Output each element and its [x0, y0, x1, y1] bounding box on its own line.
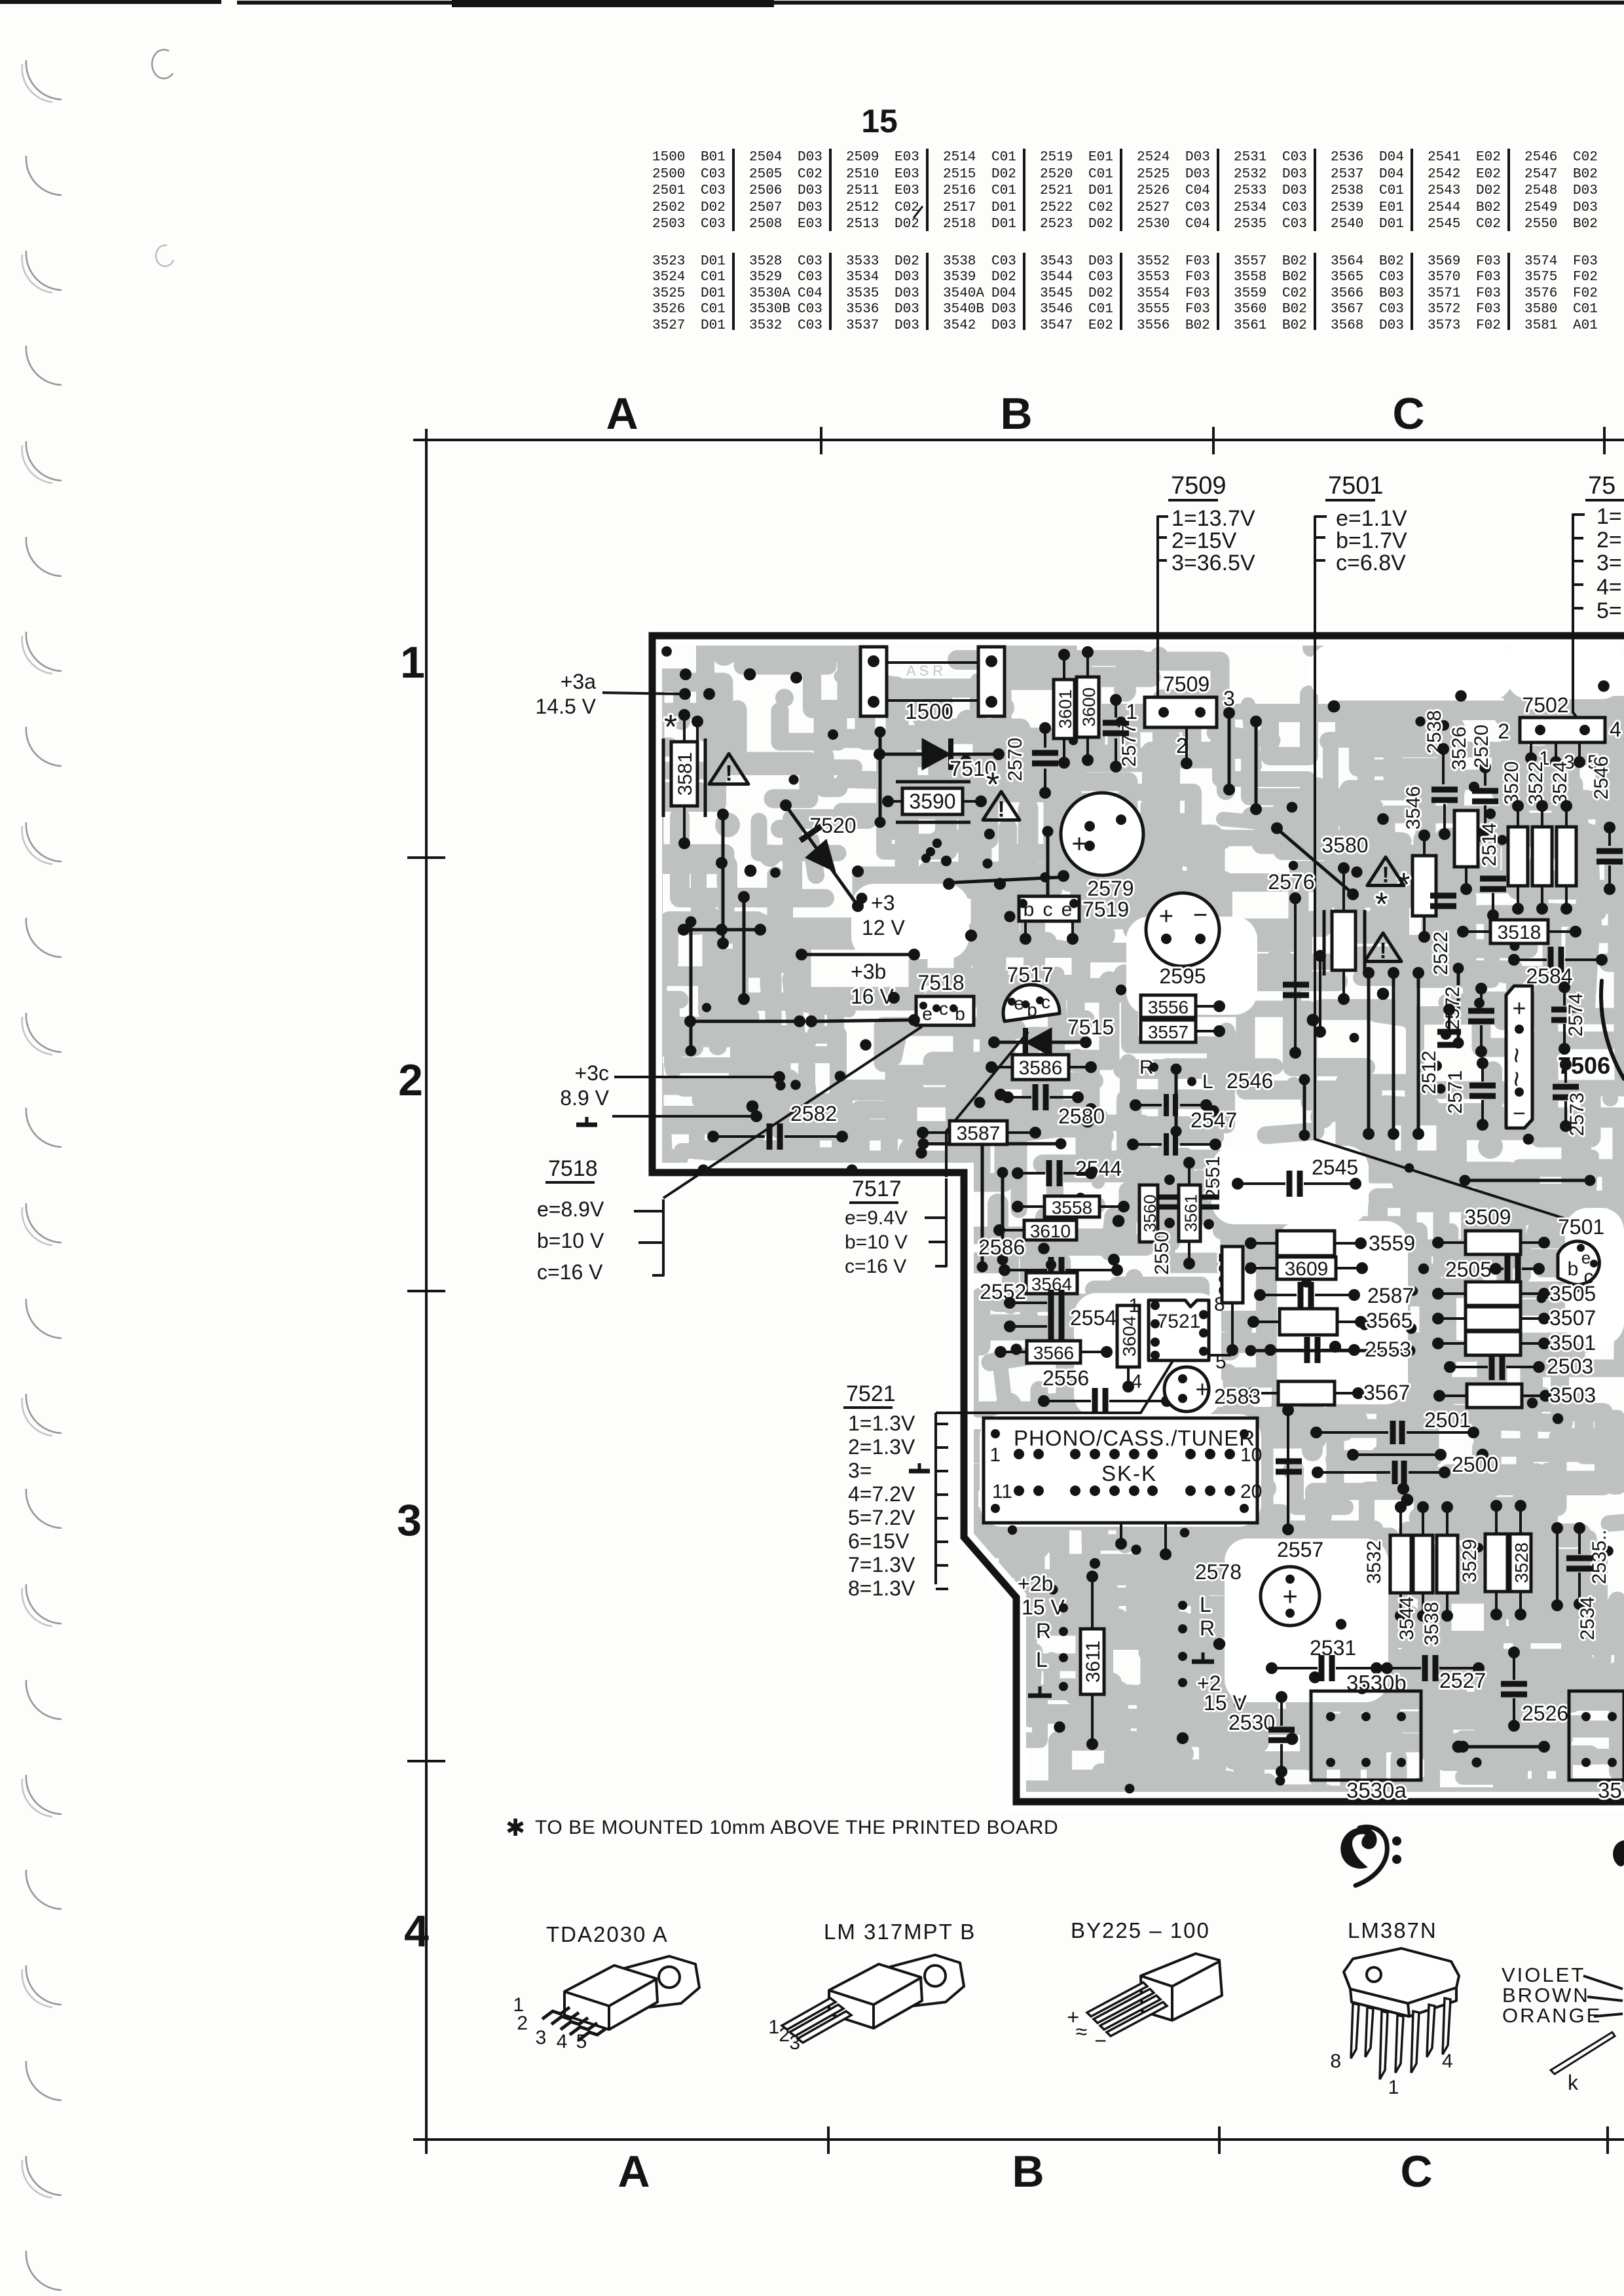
svg-text:3580: 3580 [1524, 302, 1557, 317]
svg-text:!: ! [1382, 863, 1389, 888]
svg-text:e=9.4V: e=9.4V [845, 1207, 908, 1229]
svg-text:2532: 2532 [1234, 167, 1266, 182]
svg-text:C03: C03 [701, 217, 726, 232]
svg-text:4=7.2V: 4=7.2V [848, 1482, 915, 1506]
svg-text:3530a: 3530a [1346, 1778, 1407, 1802]
svg-text:C04: C04 [1185, 183, 1210, 198]
partial bass clef right edge [1614, 1841, 1624, 1866]
leader line 7501 to transistor [1315, 634, 1566, 1219]
leader line 7503 to connector 7502 [1573, 634, 1585, 728]
svg-text:3544: 3544 [1040, 270, 1073, 285]
svg-text:E02: E02 [1476, 167, 1501, 182]
svg-text:3556: 3556 [1148, 997, 1189, 1017]
svg-text:2500: 2500 [652, 167, 685, 182]
svg-text:3586: 3586 [1019, 1057, 1063, 1079]
svg-text:3518: 3518 [1498, 922, 1541, 943]
svg-text:B: B [1012, 2147, 1044, 2196]
svg-text:2577: 2577 [1118, 723, 1140, 767]
svg-text:C03: C03 [701, 167, 726, 182]
svg-text:2=15V: 2=15V [1172, 528, 1237, 553]
svg-text:+: + [1195, 1376, 1209, 1402]
svg-text:2534: 2534 [1234, 200, 1266, 215]
svg-text:2516: 2516 [943, 183, 976, 198]
resistor 3610 [1024, 1220, 1077, 1240]
svg-text:C: C [1392, 389, 1424, 439]
svg-text:2517: 2517 [943, 200, 976, 215]
svg-text:7501: 7501 [1328, 472, 1384, 500]
capacitor 2554 [1051, 1313, 1061, 1339]
bass clef mark [1341, 1828, 1376, 1868]
svg-text:B02: B02 [1476, 200, 1501, 215]
svg-text:7502: 7502 [1522, 693, 1568, 717]
svg-text:7509: 7509 [1163, 672, 1209, 696]
resistor 3586 [1012, 1055, 1069, 1080]
svg-text:C02: C02 [1282, 286, 1307, 301]
svg-text:C02: C02 [798, 167, 822, 182]
svg-text:F03: F03 [1573, 254, 1598, 269]
svg-text:e=1.1V: e=1.1V [1336, 506, 1407, 531]
svg-text:C03: C03 [701, 183, 726, 198]
svg-text:3611: 3611 [1082, 1641, 1104, 1683]
svg-text:D02: D02 [1088, 286, 1113, 301]
svg-text:2583: 2583 [1214, 1385, 1261, 1408]
svg-text:B02: B02 [1573, 217, 1598, 232]
svg-text:3505: 3505 [1549, 1282, 1596, 1305]
svg-text:3600: 3600 [1079, 687, 1099, 727]
svg-text:3601: 3601 [1056, 689, 1075, 729]
svg-text:2546: 2546 [1524, 150, 1557, 165]
resistor 3566 [1027, 1341, 1080, 1363]
svg-text:3522: 3522 [1525, 761, 1547, 805]
svg-text:D02: D02 [1088, 217, 1113, 232]
resistor 3567 [1278, 1381, 1335, 1405]
svg-text:2571: 2571 [1445, 1070, 1466, 1114]
svg-text:D03: D03 [1379, 318, 1404, 333]
svg-text:1: 1 [768, 2016, 779, 2038]
svg-text:C02: C02 [1476, 217, 1501, 232]
IC 354x right [1569, 1691, 1624, 1780]
svg-text:D02: D02 [895, 217, 919, 232]
svg-text:b=10 V: b=10 V [537, 1229, 604, 1252]
svg-text:2527: 2527 [1137, 200, 1170, 215]
svg-text:3604: 3604 [1119, 1316, 1139, 1357]
svg-text:~: ~ [1501, 1048, 1532, 1064]
svg-text:8=1.3V: 8=1.3V [848, 1576, 915, 1600]
svg-text:C03: C03 [798, 302, 822, 317]
capacitor 2553 [1307, 1337, 1318, 1363]
svg-text:ORANGE: ORANGE [1502, 2004, 1602, 2027]
svg-text:2538: 2538 [1331, 183, 1363, 198]
svg-text:4: 4 [1442, 2050, 1453, 2072]
svg-text:4: 4 [1610, 718, 1621, 741]
svg-text:2536: 2536 [1331, 150, 1363, 165]
svg-text:2: 2 [1498, 720, 1509, 743]
svg-text:7521: 7521 [846, 1381, 896, 1406]
svg-text:3560: 3560 [1140, 1195, 1160, 1233]
capacitor 2583 [1164, 1367, 1209, 1412]
svg-text:C01: C01 [701, 302, 726, 317]
svg-text:D01: D01 [991, 217, 1016, 232]
resistor 3609 [1277, 1257, 1336, 1279]
resistor 3561 [1179, 1185, 1200, 1241]
svg-text:2524: 2524 [1137, 150, 1170, 165]
svg-text:−: − [1513, 1101, 1526, 1126]
svg-text:3555: 3555 [1137, 302, 1170, 317]
svg-text:2505: 2505 [1445, 1258, 1492, 1281]
svg-text:3553: 3553 [1137, 270, 1170, 285]
svg-text:C03: C03 [1282, 150, 1307, 165]
svg-text:3554: 3554 [1137, 286, 1170, 301]
svg-text:2537: 2537 [1331, 167, 1363, 182]
svg-text:3538: 3538 [943, 254, 976, 269]
svg-text:B02: B02 [1282, 302, 1307, 317]
svg-text:2502: 2502 [652, 200, 685, 215]
svg-text:3581: 3581 [1524, 318, 1557, 333]
leader 7518 to callout [663, 1027, 922, 1198]
svg-text:E03: E03 [895, 150, 919, 165]
svg-text:1: 1 [1388, 2077, 1399, 2098]
svg-text:2506: 2506 [749, 183, 782, 198]
svg-text:TO BE MOUNTED 10mm ABOVE THE P: TO BE MOUNTED 10mm ABOVE THE PRINTED BOA… [535, 1817, 1058, 1838]
svg-text:B02: B02 [1379, 254, 1404, 269]
svg-text:C03: C03 [991, 254, 1016, 269]
capacitor 2526 [1501, 1684, 1527, 1694]
svg-text:3535: 3535 [846, 286, 879, 301]
svg-text:D03: D03 [991, 318, 1016, 333]
svg-text:2556: 2556 [1043, 1366, 1089, 1390]
capacitor 2595 [1146, 893, 1219, 966]
svg-text:C03: C03 [1088, 270, 1113, 285]
svg-text:3520: 3520 [1501, 761, 1522, 805]
svg-text:3564: 3564 [1331, 254, 1363, 269]
svg-text:2557: 2557 [1277, 1538, 1323, 1561]
svg-text:3507: 3507 [1549, 1306, 1596, 1330]
svg-text:~: ~ [1501, 1071, 1532, 1087]
svg-text:+: + [1071, 829, 1086, 858]
svg-text:E01: E01 [1379, 200, 1404, 215]
svg-text:2542: 2542 [1428, 167, 1460, 182]
svg-text:2580: 2580 [1058, 1104, 1105, 1128]
svg-text:3532: 3532 [1363, 1540, 1385, 1584]
svg-text:C01: C01 [991, 150, 1016, 165]
large capacitor arc right edge [1601, 981, 1624, 1079]
svg-text:+2b: +2b [1018, 1572, 1053, 1595]
svg-text:7517: 7517 [852, 1176, 902, 1201]
resistor 3601 [1054, 680, 1075, 738]
svg-text:B03: B03 [1379, 286, 1404, 301]
svg-text:2526: 2526 [1137, 183, 1170, 198]
svg-text:2531: 2531 [1234, 150, 1266, 165]
svg-text:15 V: 15 V [1022, 1595, 1065, 1619]
svg-text:3590: 3590 [909, 790, 955, 813]
svg-text:2578: 2578 [1195, 1560, 1242, 1584]
svg-text:2507: 2507 [749, 200, 782, 215]
svg-text:2544: 2544 [1428, 200, 1460, 215]
svg-text:3509: 3509 [1464, 1205, 1511, 1229]
svg-text:F02: F02 [1476, 318, 1501, 333]
svg-text:3530A: 3530A [749, 286, 790, 301]
warning triangle B [983, 792, 1020, 820]
capacitor 2584 [1551, 947, 1561, 973]
svg-text:D01: D01 [701, 286, 726, 301]
IC 3530a [1311, 1691, 1421, 1780]
svg-text:!: ! [725, 761, 732, 786]
connector SK-K PHONO/CASS/TUNER [984, 1418, 1257, 1523]
diode 7515 [998, 1041, 1082, 1044]
svg-text:3=36.5V: 3=36.5V [1172, 551, 1255, 575]
svg-text:3546: 3546 [1403, 786, 1424, 830]
svg-text:E03: E03 [798, 217, 822, 232]
svg-text:3529: 3529 [1459, 1539, 1481, 1583]
svg-text:7515: 7515 [1067, 1015, 1114, 1039]
svg-text:D03: D03 [798, 183, 822, 198]
svg-text:2526: 2526 [1522, 1702, 1568, 1725]
svg-text:L: L [1202, 1071, 1213, 1093]
svg-text:b: b [1568, 1258, 1579, 1280]
svg-text:3557: 3557 [1234, 254, 1266, 269]
svg-text:3580: 3580 [1321, 833, 1368, 857]
svg-text:2546: 2546 [1591, 756, 1612, 800]
svg-text:C03: C03 [1282, 200, 1307, 215]
svg-text:2522: 2522 [1040, 200, 1073, 215]
svg-text:C03: C03 [798, 318, 822, 333]
svg-text:D02: D02 [991, 270, 1016, 285]
svg-text:1: 1 [1126, 700, 1137, 723]
capacitor 2573 [1553, 1087, 1579, 1097]
svg-text:C04: C04 [798, 286, 822, 301]
svg-text:b=10 V: b=10 V [845, 1231, 908, 1253]
svg-text:2521: 2521 [1040, 183, 1073, 198]
svg-text:B02: B02 [1282, 270, 1307, 285]
svg-text:C01: C01 [1088, 302, 1113, 317]
svg-text:3609: 3609 [1285, 1258, 1329, 1280]
svg-text:2511: 2511 [846, 183, 879, 198]
svg-text:F02: F02 [1573, 270, 1598, 285]
svg-text:SK-K: SK-K [1101, 1461, 1157, 1485]
svg-text:2545: 2545 [1312, 1156, 1358, 1179]
svg-text:7501: 7501 [1558, 1215, 1604, 1239]
svg-text:2534: 2534 [1577, 1597, 1598, 1641]
svg-text:2525: 2525 [1137, 167, 1170, 182]
transistor socket 7519 [1019, 896, 1079, 921]
svg-text:2508: 2508 [749, 217, 782, 232]
svg-text:2586: 2586 [978, 1235, 1025, 1259]
svg-text:3573: 3573 [1428, 318, 1460, 333]
warning triangle D [1365, 933, 1401, 961]
svg-text:3558: 3558 [1052, 1197, 1092, 1218]
svg-text:3547: 3547 [1040, 318, 1073, 333]
svg-text:C02: C02 [1573, 150, 1598, 165]
svg-text:3571: 3571 [1428, 286, 1460, 301]
svg-text:3557: 3557 [1148, 1022, 1189, 1042]
svg-text:D01: D01 [1088, 183, 1113, 198]
svg-text:E03: E03 [895, 183, 919, 198]
svg-text:3544: 3544 [1396, 1597, 1418, 1641]
svg-text:2514: 2514 [943, 150, 976, 165]
svg-text:3576: 3576 [1524, 286, 1557, 301]
svg-text:2587: 2587 [1367, 1284, 1414, 1307]
svg-text:C01: C01 [1379, 183, 1404, 198]
resistor 3590 [896, 780, 970, 784]
svg-text:2523: 2523 [1040, 217, 1073, 232]
svg-text:E02: E02 [1476, 150, 1501, 165]
svg-text:−: − [1193, 902, 1208, 929]
svg-text:C01: C01 [1573, 302, 1598, 317]
svg-text:D03: D03 [798, 200, 822, 215]
svg-text:R: R [1036, 1619, 1051, 1643]
resistor 3557 [1141, 1020, 1196, 1042]
svg-text:1: 1 [1128, 1295, 1139, 1317]
svg-text:3539: 3539 [943, 270, 976, 285]
svg-text:3540A: 3540A [943, 286, 984, 301]
svg-text:2510: 2510 [846, 167, 879, 182]
svg-text:2570: 2570 [1005, 738, 1026, 782]
svg-text:1=: 1= [1596, 504, 1622, 529]
svg-text:2503: 2503 [652, 217, 685, 232]
solder pads [661, 646, 1614, 1793]
svg-text:F03: F03 [1476, 270, 1501, 285]
svg-text:C03: C03 [1282, 217, 1307, 232]
svg-text:A: A [618, 2147, 650, 2196]
svg-text:C03: C03 [798, 270, 822, 285]
svg-text:3559: 3559 [1234, 286, 1266, 301]
svg-text:2553: 2553 [1365, 1338, 1411, 1361]
IC 7506 [1506, 986, 1532, 1128]
svg-text:3: 3 [1223, 687, 1235, 710]
svg-text:3503: 3503 [1549, 1383, 1596, 1407]
svg-text:3529: 3529 [749, 270, 782, 285]
wire 3530a to right [1467, 1745, 1540, 1749]
svg-text:B02: B02 [1573, 167, 1598, 182]
svg-text:D03: D03 [1282, 183, 1307, 198]
svg-text:2548: 2548 [1524, 183, 1557, 198]
svg-text:3530B: 3530B [749, 302, 790, 317]
jumper wires [686, 727, 1596, 1357]
svg-text:BY225 – 100: BY225 – 100 [1071, 1918, 1210, 1942]
resistor 3611 [1080, 1629, 1104, 1694]
svg-text:F02: F02 [1573, 286, 1598, 301]
svg-text:D01: D01 [701, 318, 726, 333]
resistor 3505 [1466, 1282, 1521, 1305]
svg-text:C03: C03 [1379, 302, 1404, 317]
svg-text:4: 4 [1131, 1371, 1142, 1393]
svg-text:2512: 2512 [1418, 1051, 1440, 1095]
svg-text:2543: 2543 [1428, 183, 1460, 198]
svg-text:75: 75 [1588, 472, 1615, 500]
resistor 3600 [1077, 677, 1099, 737]
svg-text:3526: 3526 [652, 302, 685, 317]
svg-text:+: + [1282, 1582, 1297, 1611]
svg-text:A: A [606, 389, 638, 439]
svg-text:5=7.2V: 5=7.2V [848, 1506, 915, 1529]
svg-text:3559: 3559 [1369, 1231, 1415, 1255]
svg-text:2550: 2550 [1524, 217, 1557, 232]
svg-text:≈: ≈ [1075, 2020, 1087, 2043]
svg-text:D03: D03 [895, 318, 919, 333]
svg-text:3540B: 3540B [943, 302, 984, 317]
svg-text:L: L [1200, 1593, 1211, 1616]
svg-text:+: + [1159, 903, 1173, 930]
svg-text:D03: D03 [1185, 150, 1210, 165]
svg-text:B02: B02 [1185, 318, 1210, 333]
svg-text:3528: 3528 [749, 254, 782, 269]
svg-text:2547: 2547 [1524, 167, 1557, 182]
svg-text:3566: 3566 [1331, 286, 1363, 301]
svg-text:3561: 3561 [1234, 318, 1266, 333]
svg-text:2: 2 [779, 2024, 790, 2046]
svg-text:4: 4 [404, 1906, 429, 1956]
svg-text:3560: 3560 [1234, 302, 1266, 317]
svg-text:D01: D01 [1379, 217, 1404, 232]
svg-text:1=1.3V: 1=1.3V [848, 1412, 915, 1435]
svg-text:c=16 V: c=16 V [537, 1260, 603, 1284]
ground lead [576, 1123, 597, 1127]
svg-text:3543: 3543 [1040, 254, 1073, 269]
svg-text:3: 3 [397, 1495, 422, 1545]
resistor 3558 [1044, 1196, 1099, 1217]
warning triangle C [1367, 857, 1404, 885]
svg-text:D03: D03 [798, 150, 822, 165]
svg-text:3=: 3= [1596, 551, 1622, 575]
resistor 3556 [1141, 995, 1196, 1017]
svg-text:2514: 2514 [1479, 823, 1500, 867]
svg-text:2: 2 [398, 1055, 423, 1105]
svg-text:F03: F03 [1185, 286, 1210, 301]
svg-text:2518: 2518 [943, 217, 976, 232]
svg-text:D03: D03 [895, 302, 919, 317]
svg-text:1: 1 [989, 1444, 1001, 1466]
svg-text:D01: D01 [701, 254, 726, 269]
capacitor 2500 [1357, 1453, 1437, 1456]
svg-text:D01: D01 [991, 200, 1016, 215]
svg-text:F03: F03 [1185, 302, 1210, 317]
svg-text:e=8.9V: e=8.9V [537, 1197, 604, 1221]
leader 7521 [936, 1351, 1179, 1413]
diode 7510 [883, 753, 995, 756]
svg-text:2=: 2= [1596, 528, 1622, 553]
spiral binding hole marks [22, 50, 174, 2290]
svg-text:35: 35 [1598, 1778, 1622, 1802]
svg-text:B: B [1000, 389, 1032, 439]
svg-text:+3a: +3a [561, 670, 596, 693]
svg-text:2512: 2512 [846, 200, 879, 215]
svg-text:D03: D03 [1185, 167, 1210, 182]
resistor 3518 [1490, 920, 1548, 943]
svg-text:3561: 3561 [1181, 1194, 1201, 1232]
svg-text:D04: D04 [1379, 167, 1404, 182]
svg-text:2: 2 [517, 2013, 528, 2034]
svg-text:C03: C03 [1185, 200, 1210, 215]
svg-text:D02: D02 [991, 167, 1016, 182]
svg-text:3570: 3570 [1428, 270, 1460, 285]
svg-text:2504: 2504 [749, 150, 782, 165]
svg-text:A S R: A S R [906, 663, 943, 679]
svg-text:3525: 3525 [652, 286, 685, 301]
svg-text:C01: C01 [701, 270, 726, 285]
svg-text:2539: 2539 [1331, 200, 1363, 215]
resistor 3559 [1277, 1231, 1335, 1256]
svg-text:!: ! [997, 797, 1005, 822]
svg-text:+3c: +3c [575, 1061, 609, 1085]
svg-text:4: 4 [557, 2031, 568, 2052]
svg-text:D03: D03 [895, 270, 919, 285]
svg-text:C02: C02 [895, 200, 919, 215]
svg-text:C01: C01 [991, 183, 1016, 198]
svg-text:b=1.7V: b=1.7V [1336, 528, 1407, 553]
svg-text:3536: 3536 [846, 302, 879, 317]
resistor near 2514 [1454, 811, 1478, 867]
svg-text:2595: 2595 [1159, 964, 1206, 988]
